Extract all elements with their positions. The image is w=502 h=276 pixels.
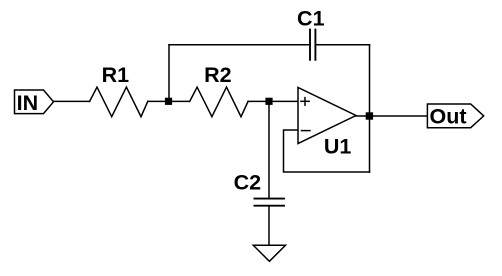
svg-text:IN: IN bbox=[17, 91, 39, 115]
svg-text:U1: U1 bbox=[324, 135, 352, 159]
svg-text:C2: C2 bbox=[234, 170, 262, 194]
svg-text:C1: C1 bbox=[297, 6, 325, 30]
svg-text:R2: R2 bbox=[204, 63, 232, 87]
svg-text:Out: Out bbox=[429, 105, 466, 129]
svg-text:R1: R1 bbox=[102, 63, 130, 87]
